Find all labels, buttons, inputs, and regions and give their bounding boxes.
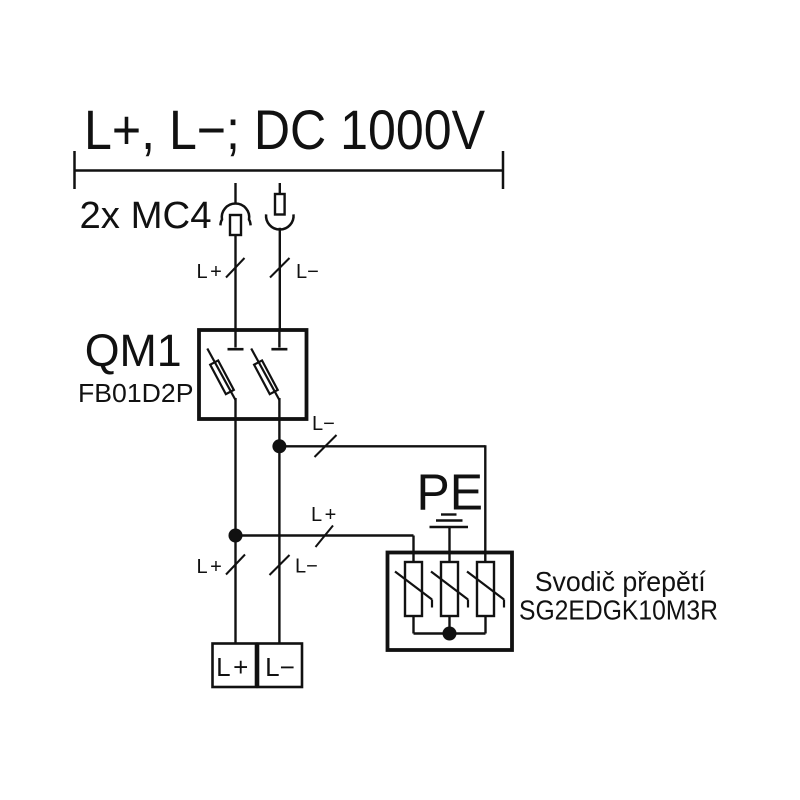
svg-text:2x MC4: 2x MC4 — [80, 195, 212, 237]
svg-text:L−: L− — [312, 413, 335, 435]
svg-text:Svodič přepětí: Svodič přepětí — [535, 566, 706, 597]
svg-text:L−: L− — [296, 261, 319, 283]
svg-text:L−: L− — [295, 556, 318, 578]
svg-text:FB01D2P: FB01D2P — [78, 378, 194, 408]
svg-text:PE: PE — [417, 464, 484, 521]
svg-text:L+: L+ — [311, 504, 339, 526]
svg-text:SG2EDGK10M3R: SG2EDGK10M3R — [519, 595, 718, 626]
svg-text:L+: L+ — [197, 556, 225, 578]
svg-text:L−: L− — [265, 652, 295, 682]
svg-text:L+, L−; DC 1000V: L+, L−; DC 1000V — [84, 98, 486, 161]
svg-text:L+: L+ — [216, 652, 251, 682]
svg-text:L+: L+ — [197, 261, 225, 283]
svg-text:QM1: QM1 — [85, 325, 182, 376]
